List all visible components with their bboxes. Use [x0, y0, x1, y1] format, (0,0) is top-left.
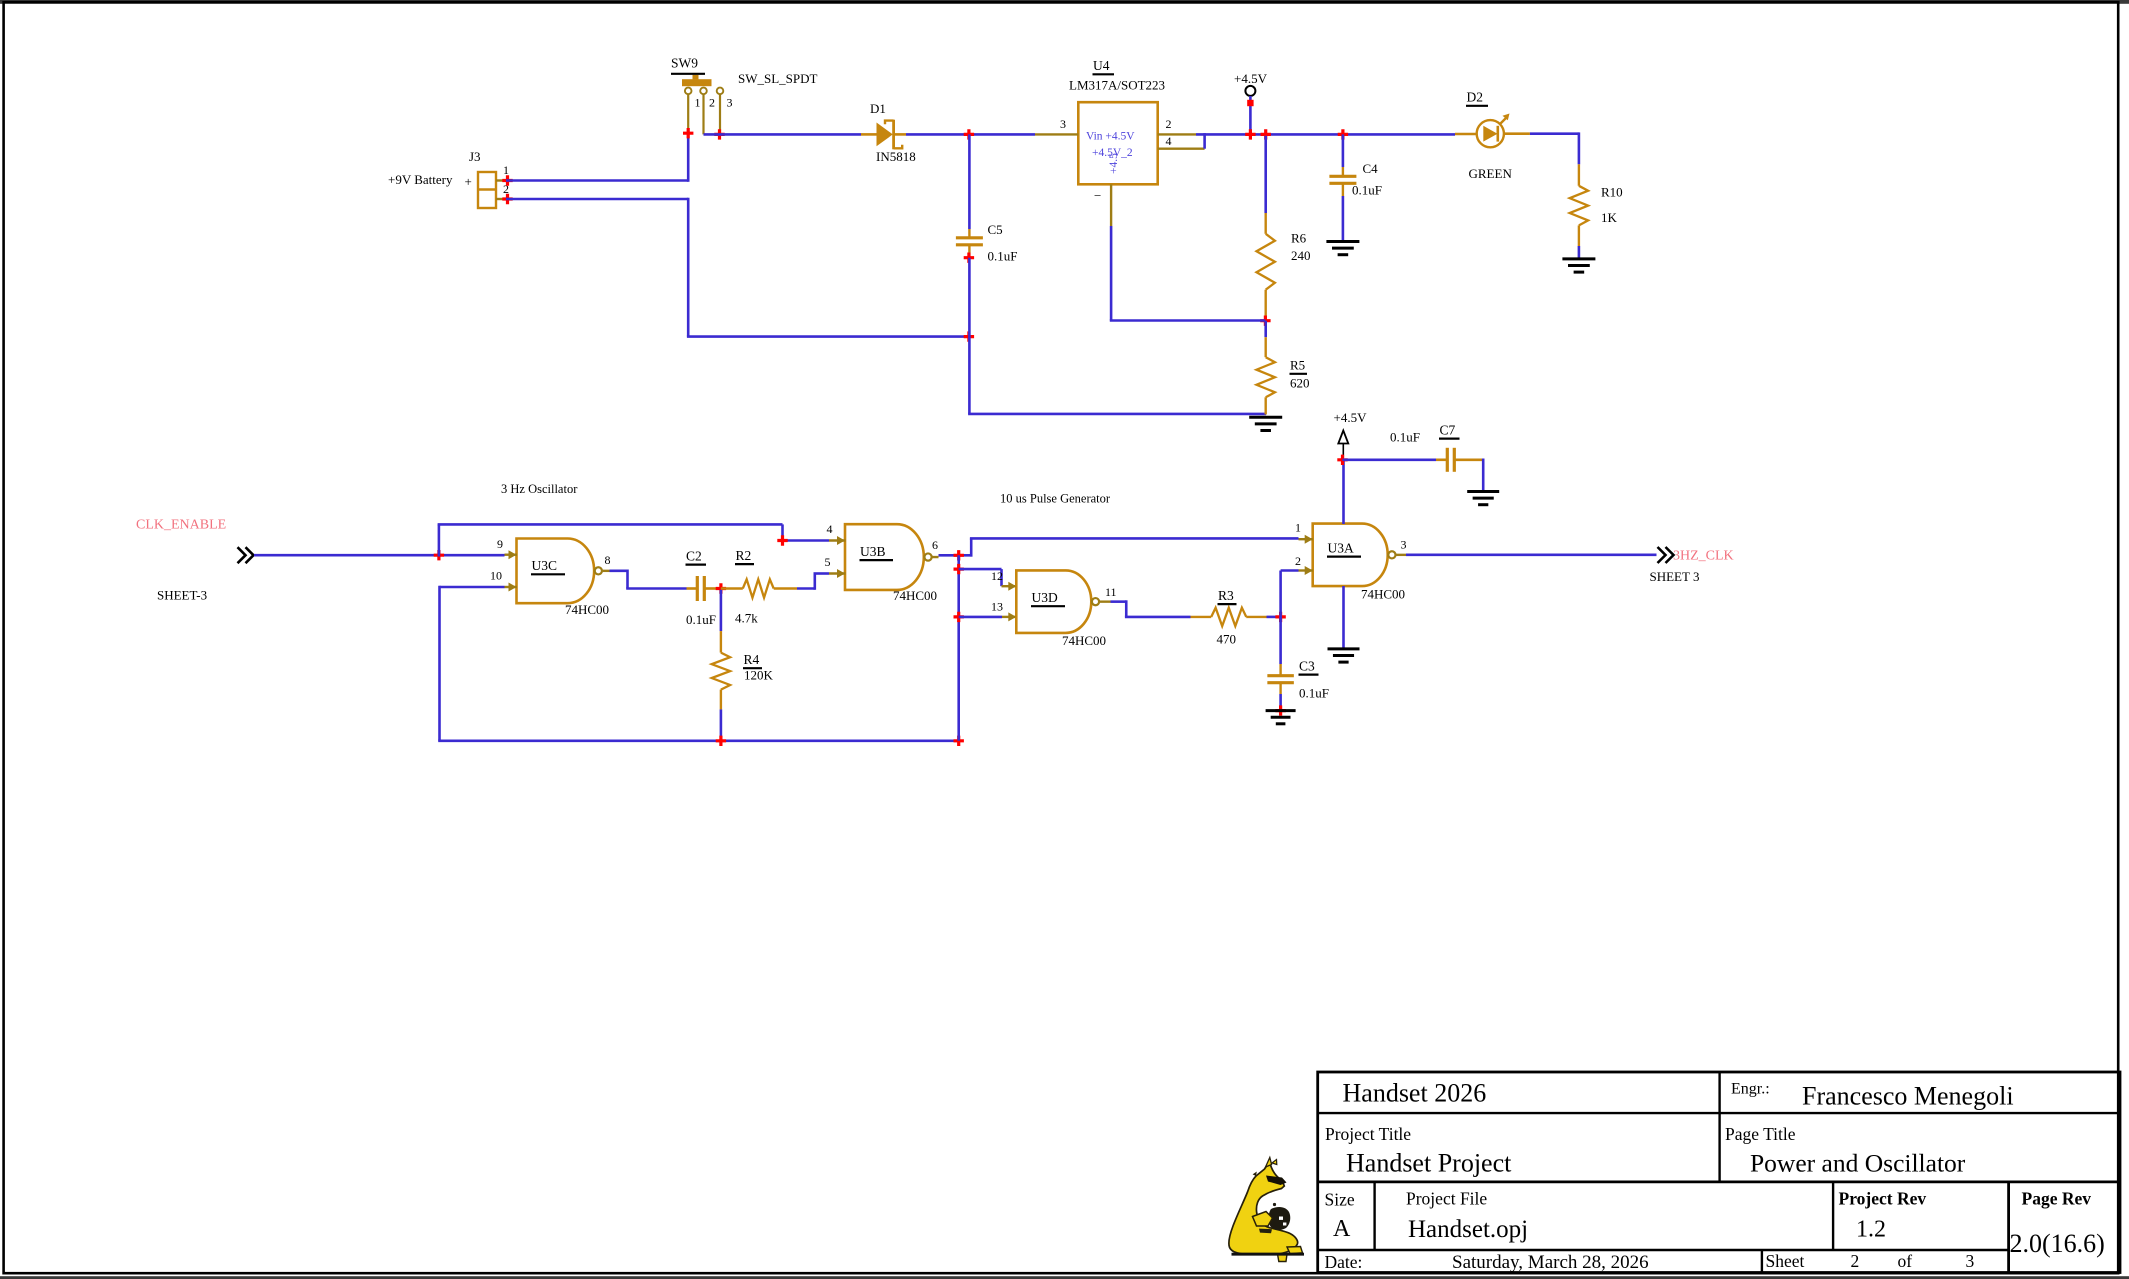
U3B pin 6 number: [932, 538, 938, 552]
svg-text:Project Rev: Project Rev: [1839, 1189, 1927, 1209]
NAND gate U3D: [1008, 570, 1110, 633]
ground below R5: [1249, 417, 1282, 430]
wire D1 cathode to U4 pin3: [906, 133, 1035, 136]
svg-text:120K: 120K: [744, 668, 774, 683]
svg-text:A: A: [1333, 1216, 1351, 1242]
U3A ground pin wire: [1342, 586, 1345, 648]
svg-text:R4: R4: [744, 652, 760, 667]
ground below C7: [1467, 492, 1499, 505]
svg-text:1K: 1K: [1601, 210, 1618, 225]
R2 refdes label: [735, 548, 754, 564]
svg-text:620: 620: [1290, 376, 1310, 391]
wire U4 ADJ to R6/R5 node: [1110, 226, 1266, 321]
svg-text:3HZ_CLK: 3HZ_CLK: [1673, 549, 1734, 564]
svg-text:470: 470: [1217, 632, 1237, 647]
J3 pin 1 number: [503, 163, 509, 177]
C3 refdes label: [1299, 659, 1319, 675]
svg-text:9: 9: [497, 537, 503, 551]
D1 value label IN5818: [876, 149, 916, 164]
SW9 pin 1 number: [695, 96, 701, 110]
svg-text:74HC00: 74HC00: [1062, 633, 1106, 648]
R5 refdes label: [1290, 358, 1308, 374]
svg-text:2: 2: [709, 96, 715, 110]
U4 ADJ minus sign: [1094, 188, 1101, 203]
svg-text:3: 3: [1966, 1251, 1975, 1271]
U3D value label 74HC00: [1062, 633, 1106, 648]
R5 value label 620: [1290, 376, 1310, 391]
svg-text:13: 13: [991, 600, 1003, 614]
junction at U3D pin13 tap: [954, 612, 964, 622]
U3C refdes label: [531, 558, 565, 574]
svg-text:74HC00: 74HC00: [893, 588, 937, 603]
R4 refdes label: [743, 652, 762, 668]
wire U3C output to C2: [610, 570, 687, 589]
sheet note SHEET-3: [157, 588, 207, 603]
R6 value label 240: [1291, 248, 1311, 263]
power symbol +4.5V near C7: [1338, 431, 1348, 459]
svg-text:2: 2: [1166, 117, 1172, 131]
junction at C3 ground: [1275, 705, 1285, 715]
svg-text:+4.5V: +4.5V: [1234, 71, 1268, 86]
wire U3B output down to U3D inputs: [957, 555, 960, 741]
junction at C5 top: [964, 129, 974, 139]
svg-text:2: 2: [1295, 554, 1301, 568]
+4.5V net label near C7: [1334, 410, 1368, 425]
svg-text:0.1uF: 0.1uF: [988, 249, 1018, 264]
sheet note SHEET 3: [1650, 569, 1700, 584]
wire +4.5V to C7: [1343, 458, 1448, 461]
svg-text:Page Rev: Page Rev: [2022, 1189, 2092, 1209]
U3C value label 74HC00: [565, 602, 609, 617]
R4 value label 120K: [744, 668, 774, 683]
svg-text:4: 4: [827, 522, 833, 536]
svg-text:1.2: 1.2: [1856, 1217, 1886, 1243]
svg-text:2.0(16.6): 2.0(16.6): [2010, 1229, 2105, 1258]
svg-text:74HC00: 74HC00: [565, 602, 609, 617]
wire U3D output to R3: [1111, 600, 1191, 617]
svg-text:12: 12: [991, 569, 1003, 583]
R2 value label 4.7k: [735, 611, 758, 626]
junction at U3B output: [954, 550, 964, 560]
U3A refdes label: [1327, 541, 1361, 557]
svg-text:+9V Battery: +9V Battery: [388, 172, 453, 187]
junction at +4.5V tap: [1245, 129, 1255, 139]
C3 value label: [1299, 686, 1329, 701]
svg-text:240: 240: [1291, 248, 1311, 263]
resistor R3: [1191, 608, 1282, 626]
U4 pin name +4.5V_2: [1092, 147, 1133, 159]
wire to U3D pin13: [959, 616, 1017, 619]
power symbol +4.5V at U4 output: [1245, 86, 1255, 134]
svg-text:GREEN: GREEN: [1469, 166, 1513, 181]
off-page connector CLK_ENABLE: [238, 547, 254, 563]
junction at J3 pin 2: [502, 194, 512, 204]
svg-text:Handset 2026: Handset 2026: [1343, 1079, 1487, 1108]
junction at R6/R5 node: [1260, 316, 1270, 326]
svg-text:U3D: U3D: [1032, 590, 1058, 605]
SW9 refdes label: [671, 56, 705, 74]
C2 value label: [686, 612, 716, 627]
svg-text:Handset Project: Handset Project: [1346, 1149, 1512, 1178]
svg-text:D1: D1: [870, 101, 886, 116]
regulator U4 LM317A: [1035, 102, 1205, 226]
section heading 10 us Pulse Generator: [1000, 492, 1111, 506]
svg-text:+4.5V: +4.5V: [1334, 410, 1368, 425]
U3D pin 12 number: [991, 569, 1003, 583]
U3D pin 13 number: [991, 600, 1003, 614]
svg-text:1: 1: [1295, 521, 1301, 535]
svg-text:4: 4: [1166, 134, 1172, 148]
svg-text:0.1uF: 0.1uF: [1390, 430, 1420, 445]
svg-text:SW9: SW9: [671, 56, 698, 71]
junction at +4.5V/C7 tap: [1337, 455, 1347, 465]
svg-text:SHEET-3: SHEET-3: [157, 588, 207, 603]
wire CLK_ENABLE to U3C pin9: [254, 554, 505, 557]
R3 value label 470: [1217, 632, 1237, 647]
SW9 value label SW_SL_SPDT: [738, 71, 818, 86]
svg-text:R3: R3: [1218, 588, 1234, 603]
R3 refdes label: [1218, 588, 1237, 604]
svg-text:0.1uF: 0.1uF: [1299, 686, 1329, 701]
connector J3: [478, 172, 506, 208]
U4 pin 4 number: [1166, 134, 1172, 148]
svg-text:SHEET 3: SHEET 3: [1650, 569, 1700, 584]
capacitor C3: [1267, 617, 1294, 711]
net label 3HZ_CLK: [1673, 549, 1734, 564]
U4 pin 2 number: [1166, 117, 1172, 131]
C5 refdes label: [988, 222, 1003, 237]
svg-text:10 us Pulse Generator: 10 us Pulse Generator: [1000, 492, 1111, 506]
U3B pin 4 number: [827, 522, 833, 536]
svg-text:U3A: U3A: [1328, 541, 1354, 556]
svg-text:Vin +4.5V: Vin +4.5V: [1086, 131, 1135, 143]
ground below U3A pin7: [1328, 649, 1360, 662]
svg-text:U4: U4: [1093, 58, 1110, 73]
U3A pin 1 number: [1295, 521, 1301, 535]
svg-text:R2: R2: [736, 548, 752, 563]
junction at U3D pin12 tap: [954, 564, 964, 574]
capacitor C2: [687, 576, 720, 601]
U4 value label LM317A/SOT223: [1069, 78, 1165, 93]
resistor R2: [721, 579, 797, 597]
U3B refdes label: [860, 544, 894, 560]
svg-text:Date:: Date:: [1325, 1252, 1363, 1272]
junction at R3/C3/U3A pin2 node: [1275, 612, 1285, 622]
svg-text:3: 3: [727, 96, 733, 110]
C5 value label: [988, 249, 1018, 264]
svg-text:Project Title: Project Title: [1325, 1124, 1411, 1144]
C4 refdes label: [1363, 161, 1379, 176]
junction at C4 top: [1338, 129, 1348, 139]
junction at SW9 pin 1: [683, 128, 693, 138]
switch SW9: [682, 75, 723, 135]
resistor R4: [712, 590, 730, 741]
junction at R6 top: [1261, 129, 1271, 139]
wire feedback top loop to U3B pin4: [438, 524, 829, 556]
R10 value label 1K: [1601, 210, 1618, 225]
capacitor C5: [956, 134, 983, 257]
svg-text:74HC00: 74HC00: [1361, 587, 1405, 602]
svg-text:Saturday, March 28, 2026: Saturday, March 28, 2026: [1452, 1252, 1649, 1273]
wire U3A output to 3HZ_CLK: [1406, 554, 1657, 557]
junction at C2/R2/R4 node: [716, 583, 726, 593]
wire U3B output node: [939, 554, 973, 557]
C4 value label: [1352, 183, 1382, 198]
U4 pin 3 number: [1060, 117, 1066, 131]
svg-text:10: 10: [490, 569, 502, 583]
svg-text:Project File: Project File: [1406, 1189, 1487, 1209]
svg-text:Power and Oscillator: Power and Oscillator: [1750, 1149, 1966, 1178]
svg-text:Handset.opj: Handset.opj: [1408, 1216, 1528, 1243]
wire U3C pin10 from feedback: [440, 586, 505, 741]
wire R2 to U3B pin5: [797, 574, 829, 590]
svg-text:LM317A/SOT223: LM317A/SOT223: [1069, 78, 1165, 93]
U3D refdes label: [1031, 590, 1065, 606]
SW9 pin 3 number: [727, 96, 733, 110]
svg-text:3 Hz Oscillator: 3 Hz Oscillator: [501, 482, 578, 496]
svg-text:R6: R6: [1291, 231, 1307, 246]
junction at U3B pin4: [777, 535, 787, 545]
U4 pin name Vin +4.5V: [1086, 131, 1135, 143]
title block: [1318, 1072, 2120, 1273]
svg-text:4.7k: 4.7k: [735, 611, 758, 626]
svg-text:Size: Size: [1325, 1190, 1355, 1210]
U3B value label 74HC00: [893, 588, 937, 603]
svg-text:C7: C7: [1440, 423, 1456, 438]
R10 refdes label: [1601, 185, 1623, 200]
svg-text:Francesco Menegoli: Francesco Menegoli: [1802, 1082, 2014, 1111]
ground below C3: [1266, 711, 1296, 724]
NAND gate U3A: [1299, 524, 1407, 587]
svg-text:D2: D2: [1467, 90, 1484, 105]
svg-text:8: 8: [605, 553, 611, 567]
U4 refdes label: [1093, 58, 1115, 74]
svg-text:−: −: [1094, 188, 1101, 203]
svg-text:+4.5: +4.5: [1108, 153, 1120, 174]
svg-text:CLK_ENABLE: CLK_ENABLE: [136, 518, 226, 533]
svg-text:2: 2: [1851, 1251, 1860, 1271]
wire J3 pin2 down and right to C5 node: [506, 198, 970, 337]
U3A power pin wire: [1342, 460, 1345, 524]
svg-text:U3B: U3B: [860, 544, 886, 559]
D2 refdes label: [1466, 90, 1488, 106]
C7 refdes label: [1439, 423, 1460, 439]
junction at R4 bottom: [716, 736, 726, 746]
svg-text:0.1uF: 0.1uF: [686, 612, 716, 627]
capacitor C4: [1329, 134, 1356, 241]
C2 refdes label: [686, 549, 707, 565]
junction at SW9 pin 3: [714, 129, 724, 139]
svg-text:C5: C5: [988, 222, 1003, 237]
ground below R10: [1562, 259, 1595, 272]
wire SW9 pin2/pin3 to D1 anode: [704, 133, 862, 136]
off-page connector 3HZ_CLK: [1658, 547, 1674, 563]
wire node to U3A pin2: [1281, 571, 1299, 619]
net label CLK_ENABLE: [136, 518, 226, 533]
junction at battery return / C5 node: [964, 331, 974, 341]
logo mascot: [1229, 1158, 1304, 1262]
U3C pin 10 number: [490, 569, 502, 583]
svg-text:3: 3: [1401, 538, 1407, 552]
U4 pin name ADJ rotated: [1108, 153, 1120, 174]
resistor R10: [1570, 164, 1588, 258]
svg-text:11: 11: [1105, 585, 1117, 599]
svg-text:1: 1: [503, 163, 509, 177]
+4.5V net label at U4 output: [1234, 71, 1268, 86]
J3 refdes label: [469, 149, 481, 164]
junction below C5: [964, 253, 974, 263]
svg-text:IN5818: IN5818: [876, 149, 916, 164]
wire C5 bottom to ground rail: [968, 258, 1266, 414]
svg-text:SW_SL_SPDT: SW_SL_SPDT: [738, 71, 818, 86]
svg-text:Page Title: Page Title: [1725, 1124, 1796, 1144]
svg-text:C3: C3: [1299, 659, 1315, 674]
U3A pin 3 number: [1401, 538, 1407, 552]
svg-text:0.1uF: 0.1uF: [1352, 183, 1382, 198]
C7 value label: [1390, 430, 1420, 445]
D1 refdes label: [870, 101, 886, 116]
diode D1 (schottky 1N5818): [861, 120, 906, 150]
svg-text:6: 6: [932, 538, 938, 552]
U3C pin 8 number: [605, 553, 611, 567]
junction at J3 pin 1: [502, 175, 512, 185]
U3C pin 9 number: [497, 537, 503, 551]
capacitor C7: [1447, 448, 1483, 491]
ground below C4: [1326, 242, 1359, 255]
svg-text:Sheet: Sheet: [1766, 1251, 1805, 1271]
section heading 3 Hz Oscillator: [501, 482, 578, 496]
wire J3 pin1 to SW9 pin1: [506, 133, 688, 182]
wire U3B output up to U3A pin1: [970, 538, 1299, 556]
svg-text:J3: J3: [469, 149, 481, 164]
svg-text:+: +: [465, 174, 472, 189]
svg-text:C4: C4: [1363, 161, 1379, 176]
resistor R5: [1257, 321, 1275, 415]
NAND gate U3B: [829, 524, 939, 590]
svg-text:C2: C2: [686, 549, 702, 564]
svg-text:Engr.:: Engr.:: [1731, 1081, 1770, 1098]
U3A pin 2 number: [1295, 554, 1301, 568]
U3D pin 11 number: [1105, 585, 1117, 599]
svg-text:R10: R10: [1601, 185, 1623, 200]
U3B pin 5 number: [825, 555, 831, 569]
svg-text:1: 1: [695, 96, 701, 110]
D2 value label GREEN: [1469, 166, 1513, 181]
svg-text:R5: R5: [1290, 358, 1305, 373]
junction at feedback right corner: [954, 736, 964, 746]
wire to U3D pin12: [959, 569, 1017, 586]
R6 refdes label: [1291, 231, 1307, 246]
svg-text:of: of: [1898, 1251, 1913, 1271]
U3A value label 74HC00: [1361, 587, 1405, 602]
SW9 pin 2 number: [709, 96, 715, 110]
junction at CLK_ENABLE feedback tap: [434, 550, 444, 560]
svg-text:U3C: U3C: [532, 558, 558, 573]
svg-text:5: 5: [825, 555, 831, 569]
LED D2: [1455, 114, 1530, 148]
J3 pin 2 number: [503, 182, 509, 196]
resistor R6: [1257, 136, 1275, 321]
svg-text:3: 3: [1060, 117, 1066, 131]
wire D2 cathode to R10: [1530, 132, 1579, 164]
J3 value label +9V Battery: [388, 172, 472, 189]
wire U4 pin2 pin4 to +4.5V rail: [1196, 133, 1455, 149]
wire oscillator bottom feedback: [438, 739, 960, 742]
NAND gate U3C: [505, 539, 610, 604]
